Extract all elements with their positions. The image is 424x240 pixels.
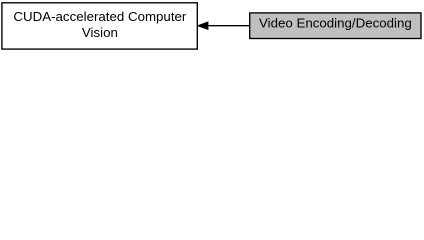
svg-text:Vision: Vision — [82, 25, 118, 40]
node: Video Encoding/Decoding (current group box, grey filled) — [250, 13, 421, 39]
arrowhead pointing at parent node — [198, 22, 208, 29]
background — [0, 0, 424, 52]
node: CUDA-accelerated Computer Vision (parent group box) — [2, 3, 197, 49]
svg-text:Video Encoding/Decoding: Video Encoding/Decoding — [259, 16, 412, 31]
svg-text:CUDA-accelerated Computer: CUDA-accelerated Computer — [13, 9, 186, 24]
wire: edge line from Video Encoding/Decoding to parent — [208, 25, 250, 27]
